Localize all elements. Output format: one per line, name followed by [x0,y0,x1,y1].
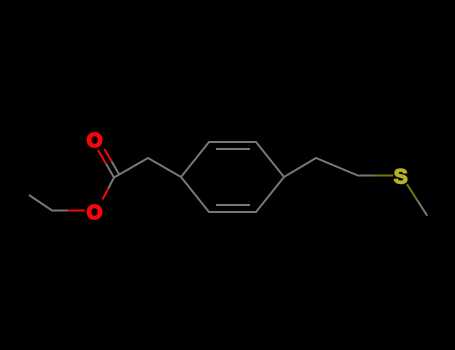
ethyl CH3-CH2 [29,195,68,211]
svg-text:S: S [394,166,408,189]
benzene ring [181,142,284,212]
carbonyl C=O line2 [112,161,120,175]
ring-CH2 right [284,158,376,177]
svg-text:O: O [87,202,103,224]
svg-text:O: O [87,130,103,152]
O-C1 bond [103,189,109,200]
ring inner line top [216,148,250,150]
C1-C2 [114,158,181,178]
carbonyl C=O line1 [106,164,114,178]
S-CH3 bond [407,184,417,200]
ring inner line bottom [216,204,250,206]
